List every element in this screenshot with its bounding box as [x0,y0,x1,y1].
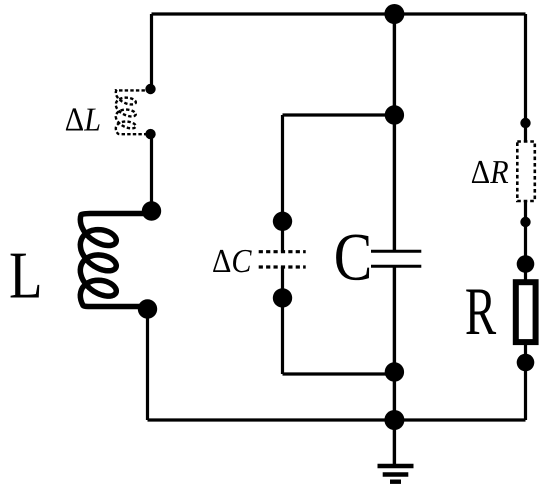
resistor R body [516,282,536,342]
node R bottom terminal [517,354,535,372]
ground bar 3 [390,480,401,484]
svg-text:ΔC: ΔC [212,243,252,280]
svg-text:ΔR: ΔR [471,154,509,191]
wire middle vertical lower [393,266,396,420]
node dR bottom terminal [520,217,530,227]
node junction top (middle vertical meets top rail) [384,4,404,24]
wire R to bottom rail [524,342,527,420]
svg-text:ΔL: ΔL [65,101,101,138]
svg-text:L: L [9,239,43,313]
node dL top terminal [145,84,155,94]
wire dR to R [524,201,527,282]
inductor L coil [80,214,148,307]
wire middle vertical upper [393,14,396,251]
node bottom junction [384,410,404,430]
inductor dL (dashed trimmer coil) [116,90,151,134]
resistor dR (dashed) [517,142,535,202]
node L top terminal [142,201,161,220]
ground bar 2 [383,472,409,476]
wire dC bottom horizontal [283,372,395,375]
ground stem [393,420,396,466]
node dC top junction [385,105,404,124]
node dL bottom terminal [145,129,155,139]
capacitor dC plates (dashed) [259,250,306,253]
node dR top terminal [520,118,530,128]
node dC upper terminal [273,212,292,231]
wire L bottom to rail [146,309,149,420]
wire right branch upper [524,14,527,142]
ground bar 1 [378,464,414,468]
wire dC left vertical upper [281,115,284,252]
node dC bottom junction [385,362,404,381]
wire left branch upper [150,14,153,89]
wire dL to L [150,134,153,211]
svg-text:C: C [334,219,373,295]
wire top rail [152,12,526,15]
node L bottom terminal [138,299,157,318]
svg-text:R: R [465,273,497,349]
capacitor C plates [371,250,421,253]
wire dC left vertical lower [281,267,284,374]
wire bottom rail [148,418,526,421]
node R top terminal [517,255,535,273]
wire dC top horizontal [283,113,395,116]
node dC lower terminal [273,288,292,307]
